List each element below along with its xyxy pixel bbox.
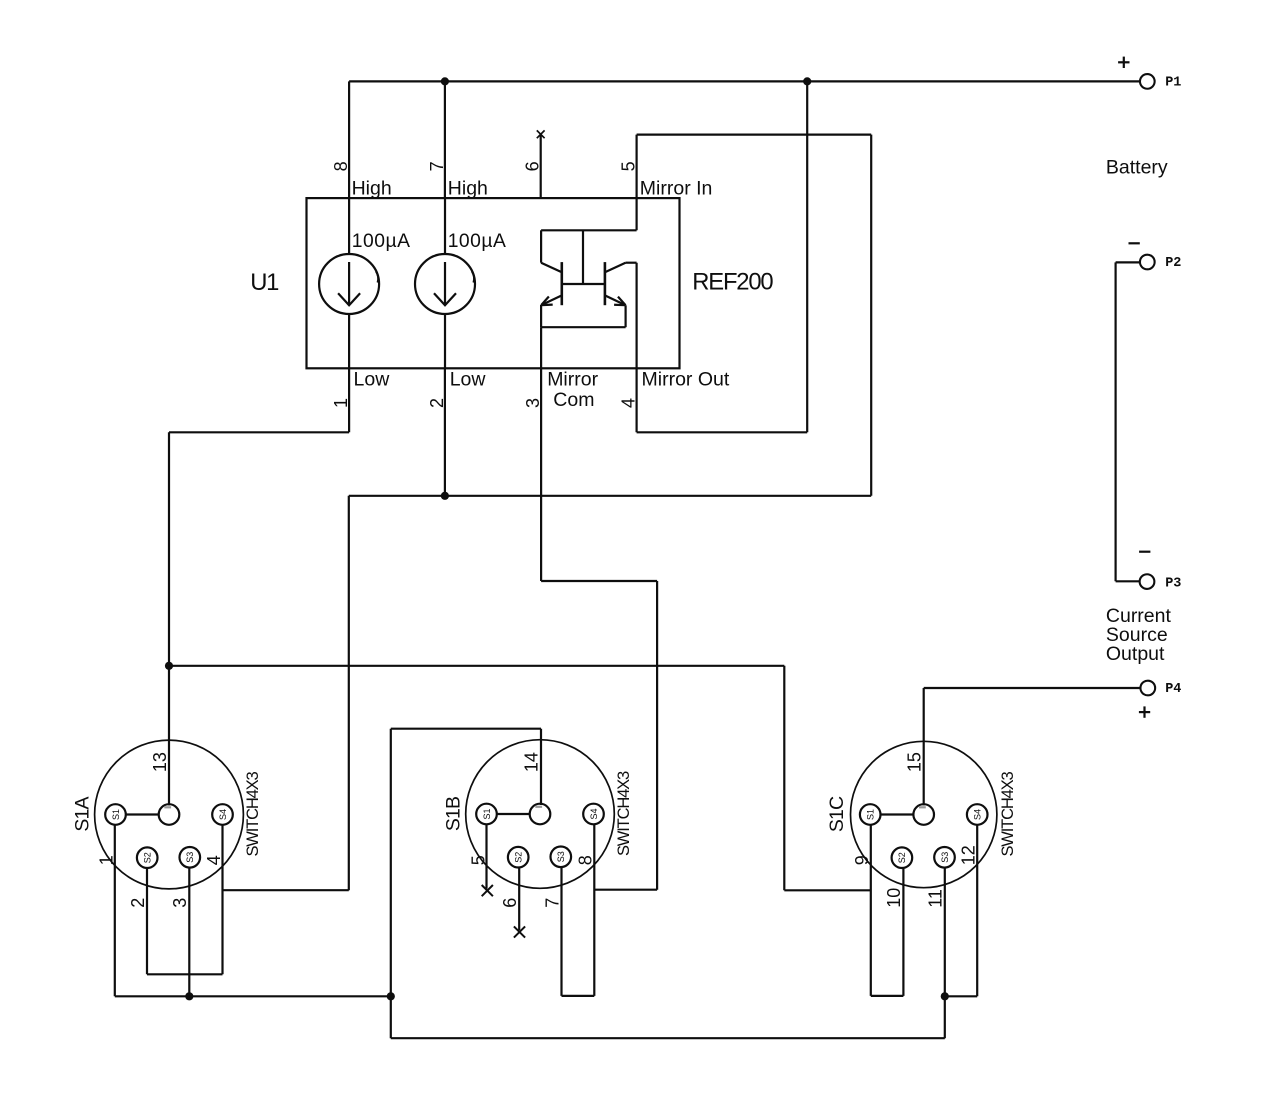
svg-text:S1C: S1C <box>826 796 848 832</box>
switch S1C body circle <box>851 741 997 887</box>
terminal P2 circle <box>1140 255 1155 270</box>
wire net-F pin 15 vertical <box>923 688 925 805</box>
wire net-E bus1 y=996 <box>115 995 391 997</box>
wire net-C pin 13 vertical <box>168 432 170 805</box>
svg-text:9: 9 <box>852 855 872 865</box>
switch S1B contact S3 circle <box>551 847 572 868</box>
svg-text:P2: P2 <box>1165 256 1181 271</box>
svg-text:6: 6 <box>523 161 543 171</box>
wire S1C S2 stub (pin 10) <box>902 868 904 996</box>
svg-text:2: 2 <box>427 398 447 408</box>
IC U1 REF200 body box <box>307 198 680 368</box>
switch S1B body circle <box>466 740 615 889</box>
switch S1A wiper to S1 <box>126 813 159 815</box>
switch S1C contact S1 circle <box>860 804 881 825</box>
current source I1 100uA (pins 8-1) <box>319 198 379 368</box>
svg-text:15: 15 <box>904 752 924 772</box>
switch S1C contact S4 circle <box>967 804 988 825</box>
terminal P4 circle <box>1140 681 1155 696</box>
transistor Q2 collector diagonal <box>605 263 626 273</box>
svg-text:14: 14 <box>522 752 542 772</box>
transistor Q1 emitter arrowhead <box>541 297 552 306</box>
switch S1B contact S4 circle <box>583 804 604 825</box>
polarity - at P3 <box>1139 551 1150 553</box>
wire net-C vertical x=784 <box>783 666 785 891</box>
wire net-C pin 1 stub <box>348 368 350 432</box>
polarity - at P2 <box>1129 242 1140 244</box>
wire net-E horizontal y=729 <box>391 728 541 730</box>
svg-text:4: 4 <box>618 398 638 408</box>
switch S1C rotor pin circle <box>913 804 934 825</box>
no-connect x at S1B pin 6 <box>514 926 525 937</box>
wire net-G P3 lead <box>1116 580 1140 582</box>
svg-text:S3: S3 <box>556 851 566 862</box>
svg-text:11: 11 <box>926 889 946 908</box>
wire Q1 emitter to rail <box>540 305 542 327</box>
wire net-A pin 4 stub <box>635 368 637 432</box>
svg-text:S3: S3 <box>940 852 950 863</box>
wire S1C S1 stub (pin 9) <box>870 825 872 996</box>
svg-text:Mirror Out: Mirror Out <box>642 369 730 391</box>
svg-text:S1B: S1B <box>442 797 464 831</box>
svg-text:P1: P1 <box>1165 76 1181 91</box>
wire S1C S4 stub (pin 12) <box>976 825 978 997</box>
wire net-B horizontal y=135 <box>637 134 872 136</box>
switch S1B rotor pin end marker <box>535 806 542 808</box>
svg-text:S1A: S1A <box>71 797 93 832</box>
svg-text:S2: S2 <box>143 852 153 863</box>
wire Q2 emitter to rail <box>624 305 626 327</box>
wire S1C S1-S2 link y=996 <box>871 995 904 997</box>
wire S1A S1 stub (pin 1) <box>114 825 116 997</box>
wire Q1 emitter rail to pin 3 <box>540 327 542 368</box>
svg-text:S3: S3 <box>185 852 195 863</box>
wire S1A S4-S2 link y=974 <box>147 973 223 975</box>
wire net-D vertical x=657 <box>656 581 658 890</box>
transistor Q1 base bar <box>560 262 563 305</box>
svg-text:1: 1 <box>97 855 117 865</box>
svg-text:P3: P3 <box>1165 576 1181 591</box>
wire net-B pin 2 stub <box>444 368 446 496</box>
svg-text:6: 6 <box>500 898 520 908</box>
svg-text:8: 8 <box>575 855 595 865</box>
wire net-D horizontal y=581 <box>541 580 657 582</box>
wire S1B S4 stub (pin 8) <box>593 824 595 996</box>
svg-text:S2: S2 <box>514 852 524 863</box>
wire net-E bus2 y=1038 <box>391 1037 945 1039</box>
wire pin 6 stub <box>540 135 542 199</box>
svg-text:S2: S2 <box>897 852 907 863</box>
svg-text:Low: Low <box>450 369 487 391</box>
polarity + at P1 <box>1118 57 1129 68</box>
wire net-A mirror-out riser x=807 <box>806 81 808 432</box>
junction dot net-A at pin7 column <box>441 77 449 85</box>
wire S1C S3-S4 link y=996 <box>945 995 977 997</box>
mirror base link <box>562 283 605 285</box>
wire S1B S3 stub (pin 7) <box>560 867 562 996</box>
svg-text:P4: P4 <box>1165 682 1181 697</box>
svg-text:Output: Output <box>1106 643 1165 665</box>
wire net-C horizontal y=666 <box>169 665 784 667</box>
wire Q2 collector to pin 4 <box>635 263 637 369</box>
svg-text:7: 7 <box>542 898 562 908</box>
switch S1A contact S4 circle <box>212 804 233 825</box>
svg-text:High: High <box>448 177 488 199</box>
wire net-B vertical x=871 <box>870 135 872 496</box>
wire S1C S3 stub (pin 11) <box>944 868 946 1038</box>
svg-text:4: 4 <box>204 855 224 865</box>
svg-text:SWITCH4X3: SWITCH4X3 <box>244 771 262 856</box>
wire net-B horizontal y=496 <box>349 495 871 497</box>
svg-text:8: 8 <box>331 161 351 171</box>
svg-text:3: 3 <box>523 398 543 408</box>
wire net-G P2 lead <box>1116 261 1140 263</box>
wire net-A mirror-out horizontal y=432 <box>637 431 808 433</box>
wire net-D horizontal y=890 to S1B S4 <box>594 889 657 891</box>
svg-text:SWITCH4X3: SWITCH4X3 <box>615 771 633 856</box>
svg-text:Mirror: Mirror <box>547 369 598 391</box>
switch S1B contact S2 circle <box>508 847 529 868</box>
junction dot net-E at S1C S3 <box>941 992 949 1000</box>
svg-text:Low: Low <box>354 369 391 391</box>
switch S1B contact S1 circle <box>476 804 497 825</box>
switch S1C contact S3 circle <box>934 847 955 868</box>
wire net-D pin 3 stub <box>540 368 542 581</box>
switch S1A rotor pin end marker <box>164 806 171 808</box>
svg-text:Battery: Battery <box>1106 157 1168 179</box>
wire net-B pin 5 riser <box>635 135 637 231</box>
transistor Q2 emitter arrowhead <box>614 297 625 306</box>
svg-text:High: High <box>352 177 392 199</box>
svg-text:S1: S1 <box>482 808 492 819</box>
transistor Q1 emitter <box>542 295 562 305</box>
wire S1A S4 stub (pin 4) <box>221 825 223 975</box>
wire S1A S2 stub (pin 2) <box>146 868 148 974</box>
svg-text:REF200: REF200 <box>692 269 773 296</box>
svg-text:S1: S1 <box>111 809 121 820</box>
svg-text:100µA: 100µA <box>448 231 507 252</box>
switch S1C contact S2 circle <box>892 847 913 868</box>
wire S1B S1 stub (pin 5) <box>485 824 487 888</box>
svg-text:Com: Com <box>553 389 594 411</box>
switch S1A contact S3 circle <box>180 847 201 868</box>
switch S1C rotor pin end marker <box>919 806 926 808</box>
junction dot net-A at x=807 <box>803 77 811 85</box>
svg-text:U1: U1 <box>250 269 279 296</box>
switch S1A rotor pin circle <box>159 804 180 825</box>
svg-text:12: 12 <box>958 845 978 865</box>
terminal P3 circle <box>1140 574 1155 589</box>
polarity + at P4 <box>1139 706 1150 717</box>
svg-text:7: 7 <box>427 161 447 171</box>
switch S1B wiper to S1 <box>497 813 530 815</box>
svg-text:S4: S4 <box>218 809 228 820</box>
wire S1B S2 stub (pin 6) <box>518 867 520 930</box>
svg-text:5: 5 <box>468 855 488 865</box>
wire net-A top rail (+battery) to P1 <box>349 80 1140 82</box>
no-connect x at pin 6 <box>537 130 545 138</box>
switch S1C wiper to S1 <box>881 813 914 815</box>
wire net-C horizontal y=890 to S1C S1 <box>784 889 871 891</box>
transistor Q2 base bar <box>604 262 607 305</box>
svg-text:2: 2 <box>128 898 148 908</box>
svg-text:100µA: 100µA <box>352 231 411 252</box>
wire net-B horizontal y=890 to S1A S4 <box>223 889 349 891</box>
current source I2 100uA (pins 7-2) <box>415 198 475 368</box>
svg-text:13: 13 <box>150 752 170 772</box>
svg-text:Mirror In: Mirror In <box>640 177 713 199</box>
junction dot net-E at S1A S3 <box>185 992 193 1000</box>
svg-text:S1: S1 <box>866 809 876 820</box>
wire net-C horizontal y=432 <box>169 431 349 433</box>
wire net-G vertical x=1116 <box>1114 262 1116 581</box>
svg-text:5: 5 <box>619 161 639 171</box>
transistor Q2 emitter <box>605 295 625 305</box>
switch S1A contact S1 circle <box>105 804 126 825</box>
wire net-A pin 7 riser <box>444 81 446 198</box>
wire net-B vertical x=349 <box>348 496 350 890</box>
svg-text:SWITCH4X3: SWITCH4X3 <box>999 771 1017 856</box>
junction dot net-E at bus1 <box>387 992 395 1000</box>
wire net-A pin 8 riser <box>348 81 350 198</box>
mirror input top rail <box>541 229 637 231</box>
svg-text:10: 10 <box>884 888 904 908</box>
svg-text:S4: S4 <box>589 808 599 819</box>
no-connect x at S1B pin 5 <box>482 885 493 896</box>
junction dot net-C at y=666 <box>165 662 173 670</box>
svg-text:3: 3 <box>170 898 190 908</box>
terminal P1 circle <box>1140 74 1155 89</box>
switch S1B rotor pin circle <box>530 804 551 825</box>
junction dot net-B at pin2 column <box>441 492 449 500</box>
switch S1A body circle <box>95 740 244 889</box>
wire net-E vertical x=391 <box>390 729 392 1038</box>
wire net-E pin 14 vertical <box>540 729 542 805</box>
switch S1A contact S2 circle <box>137 847 158 868</box>
mirror Q1 collector diagonal <box>541 263 562 273</box>
wire S1B S4-S3 link y=996 <box>562 995 595 997</box>
svg-text:S4: S4 <box>973 809 983 820</box>
mirror Q1 collector drop <box>540 230 542 262</box>
svg-text:1: 1 <box>331 398 351 408</box>
mirror base tie drop <box>582 230 584 284</box>
wire net-F horizontal y=688 to P4 <box>924 687 1141 689</box>
mirror output top link <box>626 262 637 264</box>
wire S1A S3 stub (pin 3) <box>188 867 190 996</box>
mirror emitter rail y=327 <box>541 326 626 328</box>
